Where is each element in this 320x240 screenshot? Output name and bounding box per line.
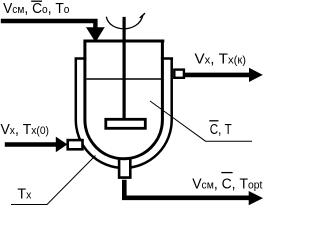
macron over Co [31,0,42,2]
liquid level line [87,78,162,80]
svg-text:Vх, Тх(к): Vх, Тх(к) [195,51,247,67]
coolant inlet arrowhead [56,137,68,153]
product outlet arrowhead [249,191,263,205]
macron over product C [221,172,232,174]
leader line for Tx label [11,156,96,205]
stirrer paddle [106,119,146,128]
wire: coolant outlet line [184,73,250,78]
stirrer shaft [122,17,125,119]
rotation arrow [106,15,143,29]
svg-text:Vсм, Cо, То: Vсм, Cо, То [3,1,69,17]
svg-text:Vсм, C, Тopt: Vсм, C, Тopt [192,176,262,192]
rotation arrow barb [140,13,145,18]
coolant inlet stub [68,140,83,149]
coolant outlet arrowhead [249,68,263,82]
product outlet stub [119,158,130,178]
wire: feed inlet line [1,21,96,28]
leader line for C,T label [150,101,252,141]
wire: coolant inlet line [5,142,57,147]
jacket [75,57,174,168]
coolant outlet stub [174,70,184,78]
feed inlet arrowhead [86,27,105,42]
macron over C [209,120,218,122]
svg-text:C, Т: C, Т [210,122,232,138]
svg-text:Тх: Тх [17,187,32,203]
wire: product outlet line [124,180,249,198]
vessel [83,41,164,159]
svg-text:Vх, Тх(0): Vх, Тх(0) [1,122,50,138]
